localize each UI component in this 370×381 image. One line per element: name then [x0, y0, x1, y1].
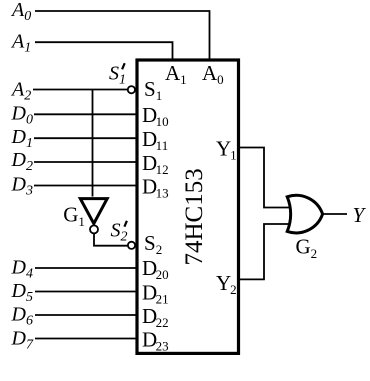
svg-text:D23: D23 [142, 328, 169, 354]
chip U1 74HC153 body [137, 60, 239, 353]
bubble S1 input [128, 86, 135, 93]
wire Y2 to G2 lower input [239, 224, 293, 279]
svg-text:A1: A1 [10, 31, 31, 56]
inverter G1 [80, 199, 107, 224]
wire D2 [34, 161, 137, 163]
wire A1 [35, 42, 173, 60]
svg-text:D3: D3 [11, 174, 33, 199]
svg-text:D6: D6 [11, 304, 33, 329]
wire A2 branch to G1 input [92, 90, 94, 197]
svg-text:A0: A0 [202, 61, 224, 87]
svg-text:D21: D21 [142, 281, 169, 307]
wire D0 [34, 113, 137, 115]
or-gate G2 [287, 195, 322, 233]
svg-text:A0: A0 [10, 0, 31, 24]
wire G2 output Y [323, 213, 347, 215]
svg-text:D0: D0 [11, 103, 33, 128]
wire G1 output to S2 bubble [94, 233, 127, 245]
bubble S2 input [128, 242, 135, 249]
svg-text:D2: D2 [11, 149, 33, 174]
svg-text:D20: D20 [142, 256, 169, 282]
svg-text:G2: G2 [296, 235, 318, 262]
svg-text:D4: D4 [11, 257, 33, 282]
wire A0 [35, 11, 210, 60]
svg-text:D22: D22 [142, 304, 169, 330]
svg-text:Y1: Y1 [216, 137, 237, 163]
wire Y1 to G2 upper input [239, 148, 293, 208]
wire A2 to S1 bubble [33, 89, 128, 91]
svg-text:D5: D5 [11, 280, 33, 305]
wire D1 [34, 137, 137, 139]
svg-text:Y: Y [353, 203, 367, 227]
wire D7 [35, 338, 137, 340]
svg-text:74HC153: 74HC153 [181, 168, 208, 265]
svg-text:S1: S1 [144, 77, 162, 103]
wire D4 [35, 267, 137, 269]
wire D3 [34, 185, 137, 187]
svg-text:D1: D1 [11, 126, 33, 151]
svg-text:D13: D13 [142, 175, 169, 201]
svg-text:D12: D12 [142, 151, 169, 177]
svg-text:A1: A1 [165, 61, 187, 87]
svg-text:S2: S2 [144, 231, 162, 257]
wire D6 [35, 314, 137, 316]
svg-text:D11: D11 [142, 127, 168, 153]
wire D5 [35, 291, 137, 293]
bubble G1 output [90, 225, 98, 233]
svg-text:D10: D10 [142, 103, 169, 129]
svg-text:A2: A2 [10, 79, 31, 104]
svg-text:Y2: Y2 [216, 271, 237, 297]
svg-text:G1: G1 [63, 203, 85, 230]
svg-text:D7: D7 [11, 328, 34, 353]
